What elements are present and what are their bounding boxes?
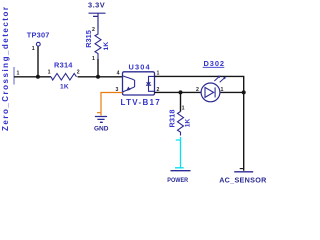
resistor R318 bbox=[178, 112, 184, 136]
svg-text:U304: U304 bbox=[129, 63, 151, 72]
wire D302 to right rail bbox=[215, 91, 244, 93]
svg-text:1: 1 bbox=[182, 106, 185, 112]
optocoupler U304 box bbox=[123, 72, 155, 95]
svg-text:1: 1 bbox=[157, 71, 160, 77]
node junction at TP307 bbox=[36, 75, 40, 79]
svg-text:1K: 1K bbox=[103, 42, 110, 51]
resistor R315 bbox=[95, 30, 101, 61]
svg-text:R315: R315 bbox=[84, 30, 93, 48]
D302 label underline bbox=[203, 66, 225, 68]
wire U304 pin2 to D302 bbox=[155, 91, 206, 93]
svg-text:R314: R314 bbox=[54, 61, 73, 70]
testpoint TP307 circle bbox=[36, 42, 40, 46]
svg-text:3.3V: 3.3V bbox=[88, 1, 105, 10]
wire main horizontal bbox=[14, 76, 123, 78]
wire orange U304 pin3 to GND bbox=[97, 93, 123, 116]
svg-text:2: 2 bbox=[77, 69, 80, 75]
svg-text:1: 1 bbox=[48, 69, 51, 75]
svg-text:1: 1 bbox=[221, 87, 224, 93]
svg-text:POWER: POWER bbox=[167, 177, 188, 184]
wire tick AC_SENSOR bbox=[240, 168, 244, 170]
power POWER bar symbol bbox=[171, 170, 191, 172]
svg-text:1K: 1K bbox=[185, 118, 192, 127]
D302 emission arrows bbox=[214, 77, 224, 82]
port (left hierarchical pin) bbox=[13, 67, 15, 85]
svg-text:TP307: TP307 bbox=[27, 31, 50, 40]
wire R315 to node bbox=[97, 59, 99, 77]
svg-text:1: 1 bbox=[17, 71, 20, 77]
D302 cathode bar bbox=[214, 87, 216, 97]
power AC_SENSOR bar symbol bbox=[234, 171, 253, 173]
wire U304 pin1 to right rail bbox=[155, 76, 244, 170]
ground GND symbol bbox=[95, 117, 107, 123]
svg-text:1: 1 bbox=[92, 56, 95, 62]
power 3.3V symbol bbox=[89, 13, 106, 29]
node junction R318 tap bbox=[179, 90, 183, 94]
wire TP307 drop bbox=[37, 46, 39, 77]
svg-text:LTV-B17: LTV-B17 bbox=[121, 98, 162, 107]
node junction right rail bbox=[242, 90, 246, 94]
svg-text:1K: 1K bbox=[60, 84, 69, 91]
svg-text:R318: R318 bbox=[167, 109, 176, 127]
node junction at R315 bbox=[96, 75, 100, 79]
svg-text:D302: D302 bbox=[204, 59, 225, 68]
D302 triangle bbox=[205, 87, 214, 97]
svg-text:1: 1 bbox=[32, 46, 35, 52]
U304 LED arrowhead bbox=[126, 87, 130, 91]
U304 internal LED bbox=[123, 76, 135, 92]
svg-text:GND: GND bbox=[94, 126, 109, 133]
svg-text:Zero_Crossing_detector: Zero_Crossing_detector bbox=[1, 6, 10, 131]
U304 internal photodetector diode bbox=[146, 76, 154, 91]
svg-text:AC_SENSOR: AC_SENSOR bbox=[219, 175, 267, 184]
svg-text:4: 4 bbox=[117, 71, 120, 77]
wire cyan R318 to POWER bbox=[175, 137, 184, 168]
resistor R314 bbox=[51, 74, 77, 81]
svg-text:2: 2 bbox=[196, 87, 199, 93]
diode D302 circle bbox=[201, 83, 220, 102]
wire R318 top bbox=[180, 92, 182, 111]
